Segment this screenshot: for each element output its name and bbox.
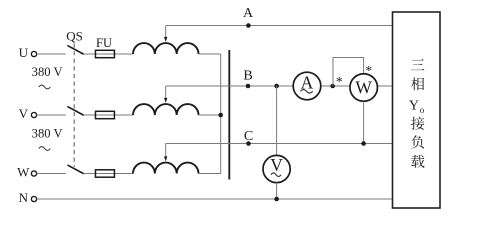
ammeter PA circle xyxy=(293,72,321,100)
load label 三 xyxy=(411,59,424,70)
fuse FU U phase xyxy=(95,50,114,57)
wire voltmeter to N xyxy=(276,183,278,199)
junction dot node C xyxy=(246,141,251,146)
load label 相 xyxy=(411,77,424,90)
switch QS dashed link xyxy=(73,44,75,168)
wire B to voltmeter xyxy=(276,86,278,155)
wattmeter PW circle xyxy=(350,74,378,102)
switch QS blade W xyxy=(68,165,83,173)
tap arrow shaft B xyxy=(165,86,167,99)
wire wattmeter to C xyxy=(363,101,365,143)
svg-text:o: o xyxy=(420,105,425,115)
svg-text:W: W xyxy=(355,78,372,98)
wire coil V end to bus xyxy=(199,114,221,116)
terminal circle N xyxy=(31,196,36,201)
fuse FU V phase xyxy=(95,111,114,118)
terminal circle V xyxy=(31,112,36,117)
junction dot voltmeter tap on B xyxy=(274,84,279,89)
svg-text:N: N xyxy=(19,190,29,205)
wire coil W end to bus xyxy=(199,173,221,175)
svg-text:V: V xyxy=(270,155,283,175)
svg-text:Y: Y xyxy=(409,99,419,114)
wire coil U end to bus xyxy=(199,53,221,55)
svg-text:W: W xyxy=(17,164,30,179)
wire U terminal to switch xyxy=(37,53,66,55)
wire wattmeter voltage loop xyxy=(333,58,364,87)
line A xyxy=(166,25,393,27)
svg-text:*: * xyxy=(336,74,343,89)
terminal circle U xyxy=(31,51,36,56)
switch QS blade V xyxy=(68,107,83,115)
wire V switch to coil xyxy=(83,114,133,116)
svg-text:A: A xyxy=(243,6,254,21)
load label 接 xyxy=(411,117,424,130)
voltmeter PV circle xyxy=(263,155,290,182)
coil winding W phase xyxy=(133,163,199,174)
svg-text:380 V: 380 V xyxy=(32,127,63,141)
junction dot wattmeter on C xyxy=(361,141,366,146)
bus wire joining coil ends xyxy=(220,54,222,174)
svg-text:380 V: 380 V xyxy=(32,65,63,79)
wire U switch to coil xyxy=(83,53,133,55)
wire W terminal to switch xyxy=(37,173,66,175)
wire V terminal to switch xyxy=(37,114,66,116)
junction dot node A xyxy=(246,23,251,28)
load label 负 xyxy=(411,135,424,148)
svg-text:U: U xyxy=(19,45,29,60)
tap arrowhead B xyxy=(164,98,167,103)
ammeter tilde xyxy=(300,90,312,94)
tap arrowhead C xyxy=(164,156,167,161)
svg-text:FU: FU xyxy=(96,36,112,50)
coil winding U phase xyxy=(133,43,199,54)
coil winding V phase xyxy=(133,104,199,115)
tap arrowhead A xyxy=(164,37,167,42)
junction dot wattmeter voltage tap xyxy=(330,84,335,89)
svg-text:B: B xyxy=(243,69,252,84)
load label 载 xyxy=(411,155,424,168)
tilde (U-V) xyxy=(39,85,50,89)
transformer core bar xyxy=(228,50,230,180)
svg-text:V: V xyxy=(19,106,29,121)
tilde (V-W) xyxy=(39,147,50,151)
line C xyxy=(166,143,393,145)
tap arrow shaft A xyxy=(165,26,167,38)
voltmeter tilde xyxy=(271,173,281,177)
line B xyxy=(166,85,393,87)
junction dot voltmeter on N xyxy=(274,197,279,202)
terminal circle W xyxy=(31,171,36,176)
switch QS blade U xyxy=(68,46,83,54)
wire W switch to coil xyxy=(83,173,133,175)
junction dot coil-end bus xyxy=(218,113,223,118)
load box xyxy=(393,12,441,208)
tap arrow shaft C xyxy=(165,144,167,158)
svg-text:QS: QS xyxy=(66,28,83,43)
fuse FU W phase xyxy=(95,170,114,177)
wire N line xyxy=(37,198,393,200)
junction dot node B xyxy=(246,84,251,89)
